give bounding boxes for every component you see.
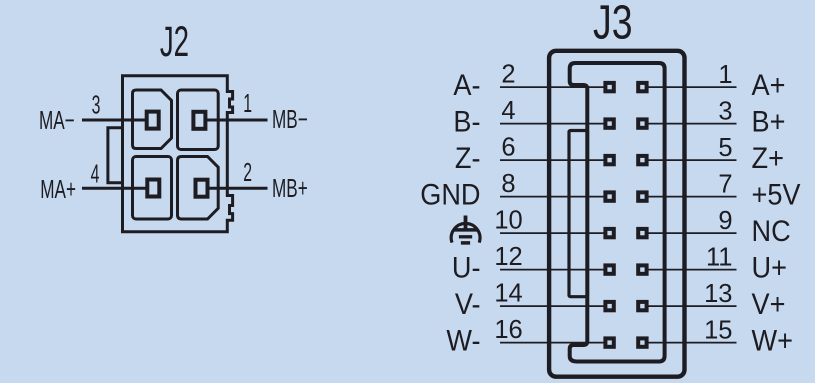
svg-text:MB+: MB+	[272, 173, 308, 203]
svg-text:+5V: +5V	[752, 179, 801, 212]
svg-text:16: 16	[494, 316, 522, 344]
svg-text:Z+: Z+	[752, 142, 784, 175]
svg-text:GND: GND	[420, 179, 480, 212]
svg-text:4: 4	[91, 161, 100, 189]
svg-text:V+: V+	[752, 288, 786, 321]
svg-text:10: 10	[494, 207, 522, 235]
svg-text:2: 2	[243, 159, 252, 187]
svg-text:J2: J2	[160, 18, 189, 65]
svg-text:12: 12	[494, 243, 522, 271]
svg-text:B-: B-	[453, 106, 480, 139]
svg-text:13: 13	[704, 280, 732, 308]
svg-text:14: 14	[494, 280, 522, 308]
svg-text:3: 3	[718, 98, 732, 126]
svg-text:U+: U+	[752, 252, 787, 285]
svg-text:1: 1	[718, 61, 732, 89]
svg-text:Z-: Z-	[455, 142, 481, 175]
svg-text:V-: V-	[455, 288, 481, 321]
svg-text:2: 2	[501, 61, 515, 89]
svg-text:A+: A+	[752, 69, 786, 102]
svg-text:NC: NC	[752, 215, 791, 248]
svg-text:7: 7	[718, 171, 732, 199]
svg-text:8: 8	[501, 170, 515, 198]
svg-text:6: 6	[501, 134, 515, 162]
svg-text:4: 4	[501, 97, 515, 125]
svg-text:U-: U-	[452, 252, 481, 285]
svg-text:5: 5	[718, 134, 732, 162]
svg-text:W-: W-	[446, 325, 480, 358]
svg-text:MA+: MA+	[40, 174, 76, 204]
svg-text:1: 1	[243, 90, 252, 118]
svg-text:B+: B+	[752, 106, 786, 139]
svg-text:MA−: MA−	[39, 105, 75, 135]
svg-text:A-: A-	[453, 69, 480, 102]
svg-text:W+: W+	[752, 325, 793, 358]
svg-text:3: 3	[92, 92, 101, 120]
svg-text:15: 15	[704, 317, 732, 345]
svg-text:J3: J3	[593, 0, 633, 50]
svg-text:9: 9	[718, 207, 732, 235]
svg-text:11: 11	[706, 244, 732, 272]
svg-text:MB−: MB−	[272, 104, 308, 134]
